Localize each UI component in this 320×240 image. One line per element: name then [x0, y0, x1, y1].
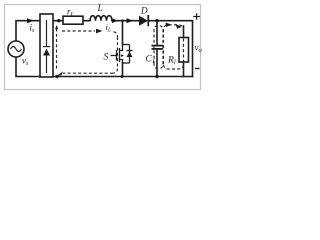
svg-text:L: L — [97, 4, 103, 14]
svg-text:D: D — [140, 6, 148, 16]
svg-text:S: S — [104, 53, 109, 63]
